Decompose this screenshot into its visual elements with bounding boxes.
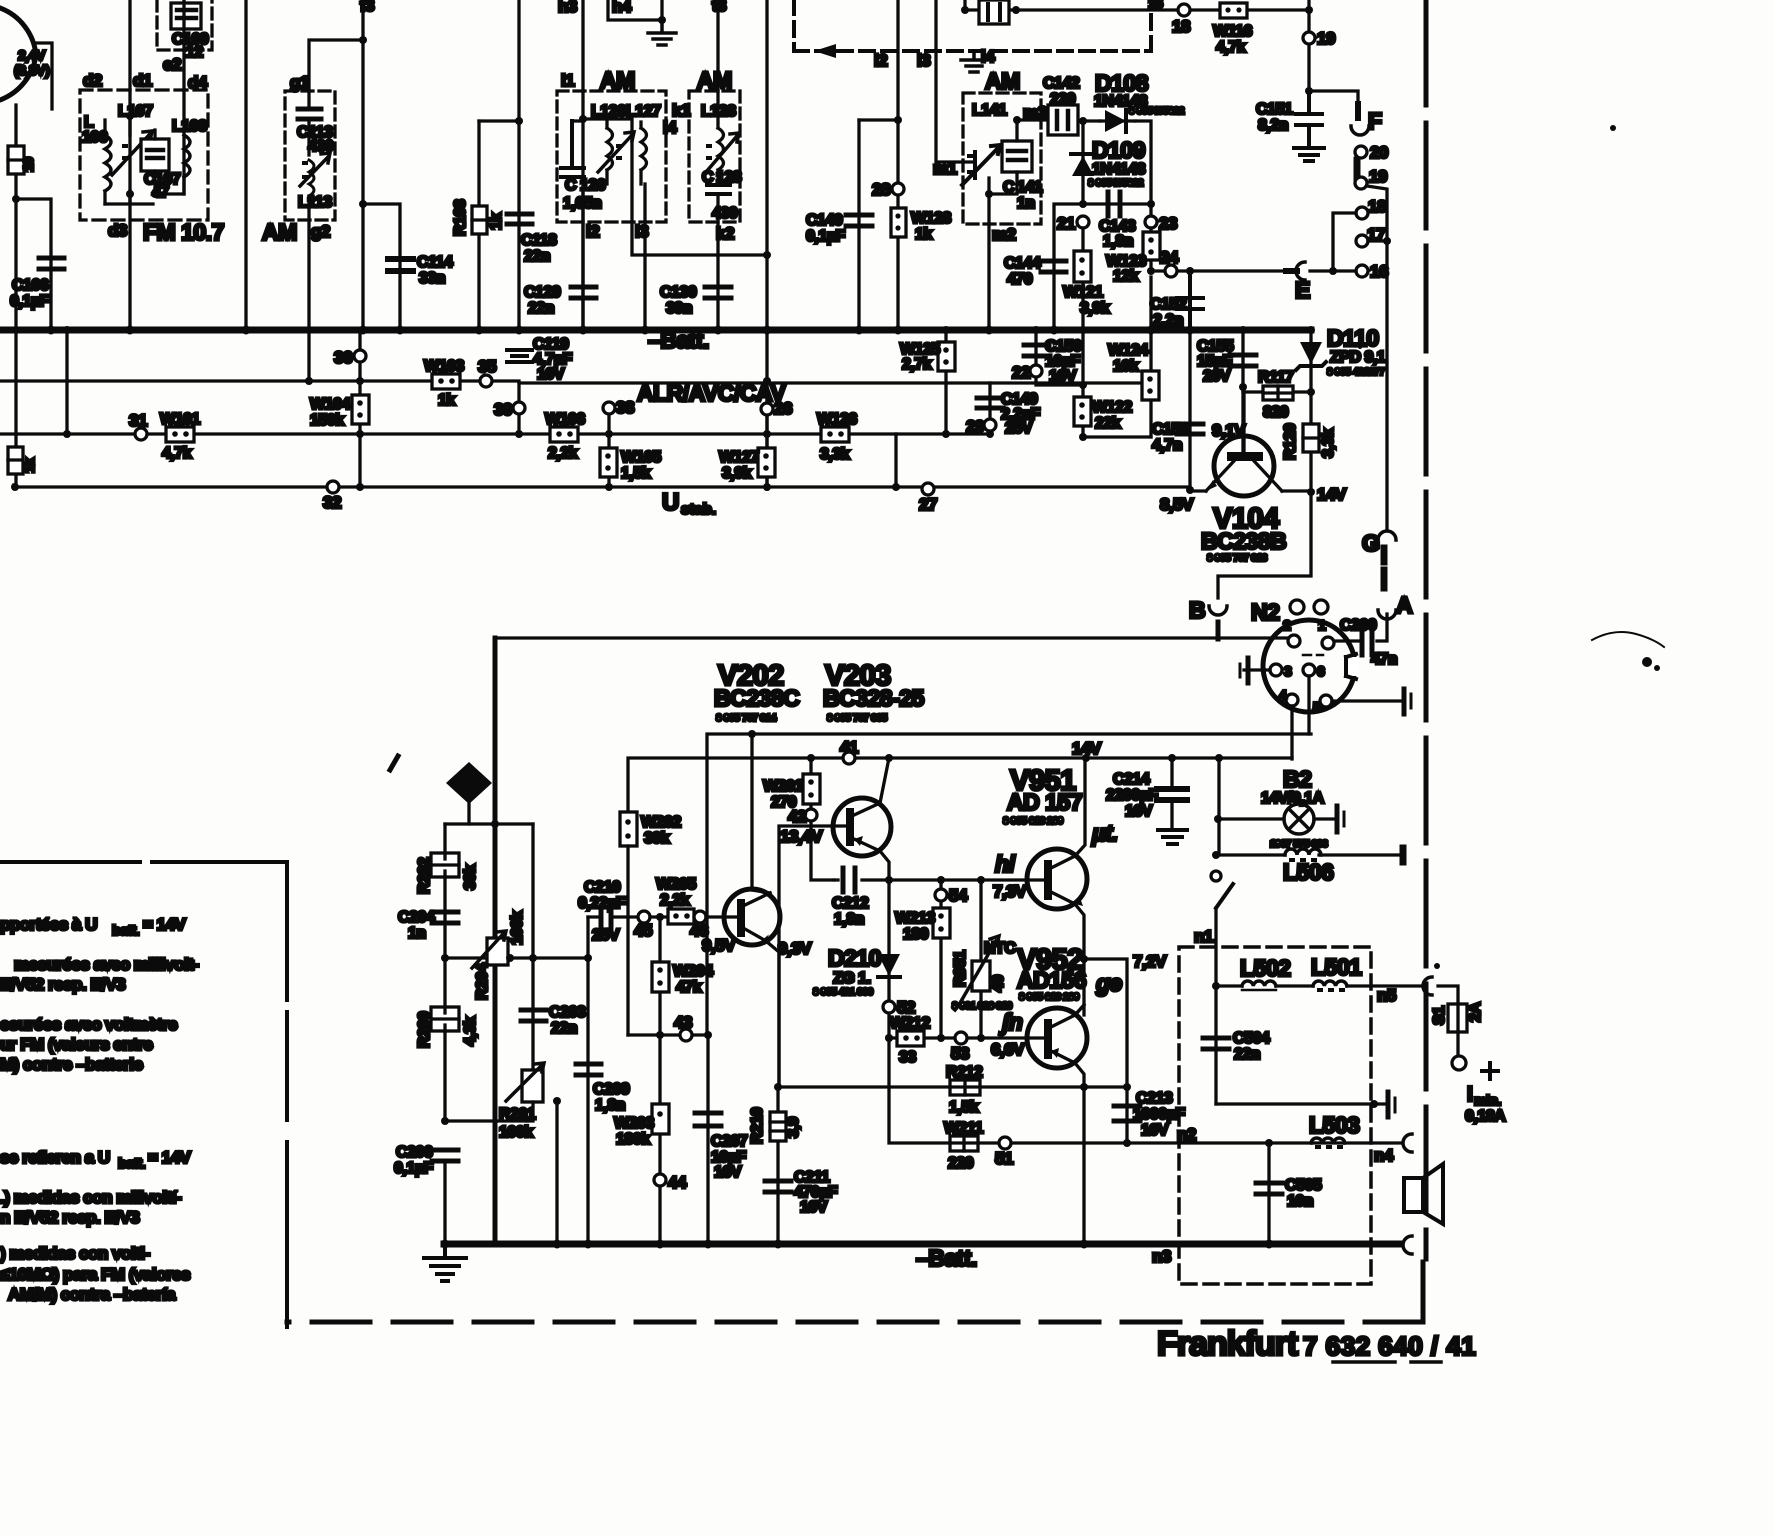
svg-text:C118: C118 xyxy=(521,232,557,249)
svg-text:F: F xyxy=(1368,108,1382,134)
node 42 xyxy=(805,809,817,821)
svg-text:mesurées avec millivolt-: mesurées avec millivolt- xyxy=(14,955,199,974)
svg-text:l4: l4 xyxy=(981,47,995,66)
svg-text:W104: W104 xyxy=(310,396,350,413)
node 36 xyxy=(358,330,361,485)
svg-text:W204: W204 xyxy=(673,963,713,980)
wire IF can stub xyxy=(963,0,966,10)
svg-text:BC238B: BC238B xyxy=(1201,528,1286,554)
svg-text:AM: AM xyxy=(697,67,732,93)
node 46 xyxy=(694,911,706,923)
wire i1 to x767 link xyxy=(583,119,767,255)
wire x1309 from top xyxy=(1307,0,1310,91)
transistor V203 xyxy=(833,798,891,856)
resistor W127 xyxy=(758,448,775,477)
svg-text:3,3k: 3,3k xyxy=(1320,428,1337,458)
capacitor C142 xyxy=(1048,105,1078,135)
node 27 xyxy=(922,483,934,495)
ground bottom left xyxy=(424,1244,466,1281)
node 20 xyxy=(1355,146,1367,158)
svg-text:ZPD 9,1: ZPD 9,1 xyxy=(1330,349,1386,366)
svg-text:7 632 640 / 41: 7 632 640 / 41 xyxy=(1303,1331,1476,1361)
svg-text:h4: h4 xyxy=(612,0,632,16)
svg-text:27: 27 xyxy=(919,495,937,514)
svg-text:8 905 707 335: 8 905 707 335 xyxy=(827,713,888,724)
svg-text:12: 12 xyxy=(186,44,203,61)
svg-text:47n: 47n xyxy=(1371,651,1397,668)
bus -Batt bottom xyxy=(444,1241,1400,1248)
node 31 xyxy=(135,428,147,440)
svg-text:R951: R951 xyxy=(952,950,969,987)
lamp feedthrough xyxy=(1335,806,1340,832)
svg-text:2,4V: 2,4V xyxy=(18,47,46,63)
svg-text:D109: D109 xyxy=(1092,137,1145,163)
wire R201 row xyxy=(445,1119,527,1122)
connector A xyxy=(1378,610,1396,619)
svg-text:B2: B2 xyxy=(1283,766,1311,792)
svg-text:22n: 22n xyxy=(1234,1046,1260,1063)
svg-text:18: 18 xyxy=(1368,197,1386,216)
page border dashed right xyxy=(1424,0,1429,1259)
svg-text:0,22µF: 0,22µF xyxy=(578,895,626,912)
dashed module border top xyxy=(794,0,1151,51)
wire left branch xyxy=(445,822,533,825)
svg-text:7,2V: 7,2V xyxy=(1133,952,1167,971)
dashed box AM g2 xyxy=(285,91,335,220)
thermistor R951 NTC xyxy=(979,880,982,1037)
pin 1 xyxy=(1322,637,1334,649)
resistor W202 xyxy=(620,812,637,846)
svg-text:35: 35 xyxy=(478,357,496,376)
wire n1 box bottom row xyxy=(1216,1102,1374,1105)
svg-text:100k: 100k xyxy=(509,911,526,945)
svg-text:C504: C504 xyxy=(1233,1030,1270,1047)
svg-text:C206: C206 xyxy=(396,1144,433,1161)
svg-text:8 905 613 269: 8 905 613 269 xyxy=(1019,992,1080,1003)
transistor V104 xyxy=(1214,436,1274,496)
wire W124 to W122 xyxy=(1083,435,1151,438)
svg-text:C129: C129 xyxy=(524,284,561,301)
wire D108 to x1083 xyxy=(1083,121,1151,216)
svg-text:3,9k: 3,9k xyxy=(1080,300,1110,317)
svg-text:44: 44 xyxy=(668,1173,687,1192)
capacitor C151 xyxy=(1296,91,1322,147)
svg-text:10: 10 xyxy=(20,157,36,172)
capacitor C206 xyxy=(432,1150,458,1161)
capacitor C203 xyxy=(521,1010,546,1021)
resistor W122 xyxy=(1081,330,1084,437)
svg-text:Frankfurt: Frankfurt xyxy=(1157,1325,1298,1363)
svg-text:W126: W126 xyxy=(817,411,857,428)
svg-text:hi: hi xyxy=(995,851,1016,877)
svg-text:100k: 100k xyxy=(499,1124,533,1141)
svg-text:13,4V: 13,4V xyxy=(780,827,823,846)
svg-text:4,7k: 4,7k xyxy=(162,445,192,462)
capacitor C155 xyxy=(1241,330,1244,452)
inductor L501 xyxy=(1313,981,1347,986)
svg-text:1n: 1n xyxy=(1017,195,1035,212)
svg-text:141: 141 xyxy=(1017,179,1043,196)
scan speck 4 xyxy=(1358,345,1362,349)
svg-text:2,2n: 2,2n xyxy=(1153,312,1183,329)
svg-text:R108: R108 xyxy=(452,199,469,236)
node 35 xyxy=(480,375,492,387)
svg-text:W105: W105 xyxy=(621,449,661,466)
capacitor C119 xyxy=(507,350,532,362)
svg-text:i1: i1 xyxy=(561,71,574,90)
svg-text:I: I xyxy=(1467,1083,1473,1106)
svg-text:2: 2 xyxy=(1283,617,1291,633)
svg-text:18: 18 xyxy=(1172,17,1190,36)
svg-text:W201: W201 xyxy=(763,778,803,795)
svg-text:W213: W213 xyxy=(895,910,935,927)
top-left transistor circle fragment xyxy=(0,8,36,100)
capacitor C210 xyxy=(588,915,638,918)
svg-text:AD 157: AD 157 xyxy=(1007,789,1082,815)
svg-text:n2: n2 xyxy=(1177,1125,1196,1144)
node 19 lower xyxy=(1355,177,1367,189)
wire junction at 204 xyxy=(359,200,367,208)
wire pin4 down xyxy=(1290,706,1293,759)
marker diamond 1 xyxy=(446,762,492,804)
svg-text:C203: C203 xyxy=(549,1004,586,1021)
svg-text:R120: R120 xyxy=(1282,423,1299,460)
node 45 xyxy=(638,911,650,923)
svg-text:14V: 14V xyxy=(1317,485,1347,504)
wire V104 to B xyxy=(1218,492,1311,598)
capacitor C150 xyxy=(1036,330,1083,385)
svg-text:R202: R202 xyxy=(416,857,433,894)
dashed box C109 xyxy=(157,0,212,50)
wire pin6 down xyxy=(1307,676,1310,734)
svg-text:S1: S1 xyxy=(1431,1006,1448,1025)
svg-text:W103: W103 xyxy=(424,358,464,375)
node 17 xyxy=(1356,235,1368,247)
svg-text:22k: 22k xyxy=(1095,415,1121,432)
pin 3 xyxy=(1270,664,1282,676)
dashed box AM m (L141) xyxy=(963,93,1041,224)
capacitor C156 xyxy=(1188,330,1191,489)
svg-text:0,1µF: 0,1µF xyxy=(394,1160,433,1177)
svg-text:33: 33 xyxy=(899,1049,916,1066)
svg-text:4: 4 xyxy=(1279,687,1287,703)
varicap L141 xyxy=(962,145,1000,185)
svg-text:8 905 421277: 8 905 421277 xyxy=(1327,367,1385,378)
wire 24 row to E xyxy=(1151,269,1286,272)
plus terminal xyxy=(1452,1056,1466,1070)
resistor R120 xyxy=(1309,392,1312,492)
svg-text:54: 54 xyxy=(949,886,968,905)
wire f3 vertical xyxy=(361,0,364,330)
svg-text:–Batt.: –Batt. xyxy=(916,1245,977,1271)
svg-text:µt.: µt. xyxy=(1091,820,1118,846)
resistor W128 xyxy=(891,208,906,237)
svg-text:i4: i4 xyxy=(663,118,677,137)
svg-text:8 905 613 269: 8 905 613 269 xyxy=(1003,816,1064,827)
svg-text:8 905 421 300: 8 905 421 300 xyxy=(813,987,874,998)
capacitor C211 xyxy=(765,1181,791,1192)
wire C143 row xyxy=(1054,204,1151,330)
wire lamp row xyxy=(1217,758,1220,855)
resistor W204 xyxy=(658,917,661,1035)
svg-text:10n: 10n xyxy=(1287,1193,1313,1210)
resistor W125 xyxy=(944,330,947,434)
diode D109 xyxy=(1071,152,1095,156)
capacitor C143 xyxy=(1108,192,1120,216)
svg-text:R212: R212 xyxy=(946,1064,983,1081)
svg-text:26: 26 xyxy=(774,399,792,418)
wire x67 xyxy=(65,330,68,434)
capacitor C109 trimmer xyxy=(171,3,201,29)
underline 632 640 xyxy=(1333,1360,1395,1364)
svg-text:.) medidas con milivoltí-: .) medidas con milivoltí- xyxy=(0,1188,181,1207)
wire pin5 feedthrough xyxy=(1332,699,1400,702)
svg-text:) medidas con volti-: ) medidas con volti- xyxy=(0,1244,150,1263)
svg-text:8 905 707 314: 8 905 707 314 xyxy=(716,713,777,724)
node 28 xyxy=(892,183,904,195)
svg-text:D210: D210 xyxy=(828,945,881,971)
wire C200 to pin1 xyxy=(1334,639,1358,642)
svg-text:22n: 22n xyxy=(551,1020,577,1037)
IF can C box top xyxy=(979,0,1009,24)
svg-text:22n: 22n xyxy=(524,248,550,265)
svg-text:R117: R117 xyxy=(1258,369,1294,386)
svg-text:2,2k: 2,2k xyxy=(660,892,690,909)
wire to F xyxy=(1309,91,1358,104)
svg-text:stab.: stab. xyxy=(681,501,716,518)
capacitor C149 xyxy=(988,383,991,434)
svg-text:W116: W116 xyxy=(1213,23,1253,40)
svg-text:G: G xyxy=(1362,530,1379,556)
svg-text:AM: AM xyxy=(262,219,297,245)
scan speck 1 xyxy=(1592,632,1664,647)
svg-text:W122: W122 xyxy=(1092,399,1132,416)
resistor W101 xyxy=(166,427,194,442)
resistor W201 xyxy=(809,758,812,810)
svg-text:ZG 1.: ZG 1. xyxy=(833,970,871,987)
svg-text:47k: 47k xyxy=(676,979,702,996)
wire i3 vertical xyxy=(643,184,646,330)
node on Ustab xyxy=(11,483,19,491)
wire m3 node xyxy=(989,120,1017,330)
wire A to C200 xyxy=(1377,614,1387,641)
svg-text:L503: L503 xyxy=(1309,1112,1359,1138)
svg-text:AD156: AD156 xyxy=(1017,967,1086,993)
transistor V951 xyxy=(1027,849,1087,909)
node 16 xyxy=(1356,265,1368,277)
capacitor C200 xyxy=(1362,633,1372,655)
wire L502/L501 row xyxy=(1212,982,1220,990)
capacitor C107 trimmer xyxy=(141,139,169,171)
svg-text:3,9: 3,9 xyxy=(785,1117,802,1138)
resistor W212 xyxy=(889,1036,1044,1039)
wire long vertical x767 xyxy=(765,0,768,489)
ground under C214 xyxy=(1158,830,1187,844)
svg-text:7,3V: 7,3V xyxy=(993,882,1027,901)
svg-text:e2: e2 xyxy=(163,55,181,74)
resistor W213 xyxy=(933,908,950,938)
resistor W105 xyxy=(600,448,617,477)
svg-text:d4: d4 xyxy=(188,73,208,92)
core dots xyxy=(618,146,620,158)
capacitor C152 xyxy=(1177,271,1203,330)
bus junction dots xyxy=(47,326,56,335)
transistor V952 xyxy=(1027,1008,1087,1068)
svg-text:10k: 10k xyxy=(1113,358,1139,375)
page border corner bottom-right xyxy=(1421,1262,1426,1322)
svg-text:1k: 1k xyxy=(488,213,505,230)
svg-text:40: 40 xyxy=(990,975,1007,992)
svg-text:28: 28 xyxy=(872,180,890,199)
wire C140 top link xyxy=(859,118,898,121)
node xyxy=(12,195,20,203)
node 24 xyxy=(1165,265,1177,277)
svg-text:pportées à U: pportées à U xyxy=(0,915,97,934)
svg-text:W203: W203 xyxy=(614,1115,654,1132)
node junction xyxy=(1305,87,1313,95)
connector n2 out xyxy=(1403,1134,1412,1152)
svg-text:C204: C204 xyxy=(398,909,435,926)
capacitor C114 xyxy=(388,259,413,271)
capacitor C129 xyxy=(571,287,596,298)
svg-text:i2: i2 xyxy=(586,222,599,241)
svg-text:d3: d3 xyxy=(108,221,127,240)
svg-text:0,18A: 0,18A xyxy=(1465,1108,1506,1125)
node 51 xyxy=(999,1137,1011,1149)
wire 17 stub xyxy=(1368,239,1387,242)
svg-text:3,9k: 3,9k xyxy=(722,465,752,482)
wire board top edge xyxy=(495,636,1287,639)
svg-text:1,8n: 1,8n xyxy=(595,1097,625,1114)
inductor L506 xyxy=(1285,849,1321,855)
wire k2 vertical xyxy=(716,194,719,330)
transistor V202 xyxy=(724,889,780,945)
svg-text:1: 1 xyxy=(1318,617,1326,633)
capacitor C106 xyxy=(39,258,64,269)
dashed box AM k (L128) xyxy=(689,91,740,222)
wire inside FM box xyxy=(105,116,153,204)
resistor W124 xyxy=(1149,277,1152,437)
lamp B2 xyxy=(1284,804,1314,834)
svg-text:C212: C212 xyxy=(832,895,869,912)
wiper R201 xyxy=(555,1101,558,1244)
wire g2 down across bus to ALR xyxy=(307,196,310,381)
svg-text:4,7k: 4,7k xyxy=(1216,39,1246,56)
svg-text:32: 32 xyxy=(323,493,341,512)
resistor W104 xyxy=(352,395,369,424)
svg-text:1k: 1k xyxy=(915,226,932,243)
svg-text:C214: C214 xyxy=(1113,771,1150,788)
resistor W123 xyxy=(1149,228,1152,271)
svg-text:180: 180 xyxy=(903,926,929,943)
capacitor C505 xyxy=(1267,1143,1270,1244)
node 19 top xyxy=(1303,32,1315,44)
svg-text:19: 19 xyxy=(1369,167,1387,186)
svg-text:batt.: batt. xyxy=(112,922,139,938)
svg-text:C144: C144 xyxy=(1004,255,1041,272)
connector E xyxy=(1286,268,1297,274)
diode D108 xyxy=(1100,119,1135,122)
dashed box AM i (L126/L127) xyxy=(557,91,666,222)
arrow on dashed border xyxy=(814,44,836,58)
node 44 xyxy=(658,1035,661,1244)
node 29 xyxy=(984,419,996,431)
connector N2 xyxy=(1263,620,1355,712)
svg-text:W128: W128 xyxy=(911,210,951,227)
svg-text:128: 128 xyxy=(716,169,742,186)
wire d4 vertical xyxy=(182,0,185,194)
wire 14V rail xyxy=(707,734,1311,1035)
svg-text:C156: C156 xyxy=(1152,421,1189,438)
svg-text:25V: 25V xyxy=(1005,420,1033,437)
svg-text:14V: 14V xyxy=(1072,739,1102,758)
pin 6 xyxy=(1303,664,1315,676)
pin dashes xyxy=(1303,654,1323,657)
svg-text:≤10MΩ) para FM (valores: ≤10MΩ) para FM (valores xyxy=(0,1265,190,1284)
scan speck 3 xyxy=(1434,963,1440,969)
node 26 xyxy=(765,381,768,489)
svg-text:C142: C142 xyxy=(1043,75,1080,92)
wire 16-18 link xyxy=(1333,213,1356,271)
wire from IF to ground h4 xyxy=(608,0,662,20)
resistor W211 xyxy=(950,1136,978,1151)
wire AVC continuation xyxy=(519,381,1151,384)
capacitor C126 xyxy=(561,121,584,177)
svg-text:BC328-25: BC328-25 xyxy=(823,685,925,711)
scan speck 2 xyxy=(1610,125,1616,131)
svg-text:l3: l3 xyxy=(917,51,930,70)
svg-text:W121: W121 xyxy=(1063,284,1103,301)
svg-text:39n: 39n xyxy=(666,300,692,317)
wire left column xyxy=(14,105,17,199)
capacitor C213 xyxy=(1114,1106,1140,1121)
svg-text:n3: n3 xyxy=(1152,1247,1171,1266)
zener D110 xyxy=(1309,330,1312,392)
svg-text:se refieren a U: se refieren a U xyxy=(0,1148,110,1167)
svg-text:W106: W106 xyxy=(545,411,585,428)
potentiometer R204 xyxy=(487,938,508,965)
connector G xyxy=(1378,531,1396,540)
svg-text:AM: AM xyxy=(985,68,1020,94)
svg-text:min.: min. xyxy=(1474,1092,1501,1108)
capacitor C207 xyxy=(706,1035,709,1244)
svg-text:10V: 10V xyxy=(1049,368,1077,385)
svg-text:3,3k: 3,3k xyxy=(820,446,850,463)
note box border xyxy=(0,862,287,1327)
svg-text:h3: h3 xyxy=(558,0,577,16)
svg-text:n E/V52 resp. E/V3: n E/V52 resp. E/V3 xyxy=(0,1208,139,1227)
capacitor C140 xyxy=(857,120,860,330)
coil L107 trimmer arrow xyxy=(112,131,152,175)
svg-text:B: B xyxy=(1189,597,1205,623)
wire ALR/AVC line xyxy=(0,379,519,382)
svg-text:8 905405822: 8 905405822 xyxy=(1088,178,1144,189)
ground under h4 xyxy=(648,20,676,45)
svg-text:C210: C210 xyxy=(584,879,621,896)
node 32 xyxy=(327,481,339,493)
wire t3 vertical xyxy=(716,0,719,91)
svg-text:d1: d1 xyxy=(133,71,152,90)
svg-text:29: 29 xyxy=(966,417,984,436)
resistor W205 xyxy=(668,909,694,924)
svg-text:150k: 150k xyxy=(310,412,344,429)
svg-text:W124: W124 xyxy=(1108,342,1148,359)
resistor W203 xyxy=(652,1104,669,1134)
svg-text:C: C xyxy=(565,177,577,194)
resistor R108 xyxy=(477,121,480,330)
node 38 xyxy=(607,408,610,487)
node 18 circle top xyxy=(1178,4,1190,16)
